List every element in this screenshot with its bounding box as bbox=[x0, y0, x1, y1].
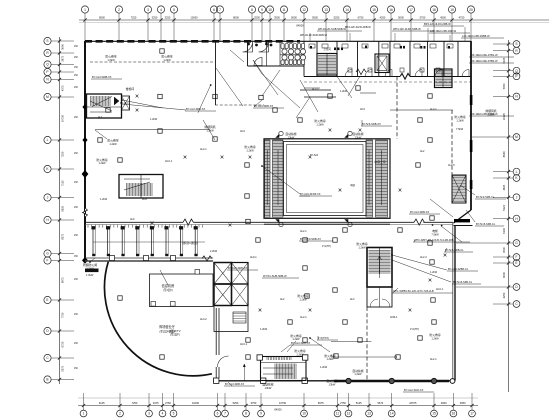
svg-text:9125: 9125 bbox=[99, 401, 105, 405]
svg-text:BY-AL3-SDB-XX: BY-AL3-SDB-XX bbox=[225, 382, 244, 386]
svg-text:15: 15 bbox=[372, 8, 376, 12]
svg-text:BY-AL3: BY-AL3 bbox=[120, 102, 129, 105]
wash basins bbox=[282, 49, 306, 60]
svg-text:防火卷帘: 防火卷帘 bbox=[297, 294, 308, 298]
svg-text:8: 8 bbox=[245, 412, 247, 416]
svg-text:防火卷帘: 防火卷帘 bbox=[314, 119, 325, 123]
svg-text:7750: 7750 bbox=[61, 312, 65, 318]
svg-text:6750: 6750 bbox=[61, 341, 65, 347]
svg-text:3750: 3750 bbox=[251, 401, 257, 405]
svg-text:BY-AL9-SDB-XX: BY-AL9-SDB-XX bbox=[228, 266, 247, 270]
leader verticals above top wall bbox=[310, 27, 465, 41]
wing corridor lower edge bbox=[304, 97, 453, 110]
elevator shaft right cell bbox=[232, 263, 249, 306]
curved curtain wall (quarter arc, SW corner) bbox=[104, 262, 211, 376]
svg-text:AL2-1: AL2-1 bbox=[300, 230, 307, 233]
long leaders from right grid bbox=[456, 137, 493, 287]
exterior wall: top (curtain wall with mullion dashes) bbox=[85, 40, 471, 42]
svg-text:BY-AL3-SDB-XX: BY-AL3-SDB-XX bbox=[186, 107, 205, 111]
elevator X lower-right cell bbox=[232, 284, 249, 306]
svg-text:14: 14 bbox=[390, 412, 394, 416]
svg-text:BY-AL3-W0B-XX: BY-AL3-W0B-XX bbox=[92, 75, 112, 79]
svg-text:L: L bbox=[516, 170, 518, 174]
svg-text:7250: 7250 bbox=[132, 401, 138, 405]
svg-text:10: 10 bbox=[302, 412, 306, 416]
svg-text:AL2-1: AL2-1 bbox=[430, 108, 437, 111]
svg-text:BY-5m6-SZB-CL: BY-5m6-SZB-CL bbox=[453, 280, 473, 284]
elevator bank (2 shafts) bbox=[214, 263, 232, 306]
svg-text:中庭上空: 中庭上空 bbox=[374, 160, 385, 164]
stairwell S1 (top-left) bbox=[87, 94, 122, 118]
svg-text:12: 12 bbox=[347, 412, 351, 416]
leader diagonals upper-middle bbox=[230, 50, 360, 118]
wing zigzag joint bbox=[356, 69, 366, 75]
E4 labels bbox=[290, 334, 363, 376]
svg-text:自动扶梯: 自动扶梯 bbox=[262, 383, 273, 387]
svg-text:7125: 7125 bbox=[61, 180, 65, 186]
svg-text:7250: 7250 bbox=[61, 151, 65, 157]
E4 corner column squares bbox=[257, 355, 308, 360]
section marker flags on atrium top bbox=[276, 131, 352, 226]
svg-text:2: 2 bbox=[119, 412, 121, 416]
svg-text:84000: 84000 bbox=[274, 408, 282, 412]
svg-text:10750: 10750 bbox=[279, 401, 287, 405]
right row-grid dimension line bbox=[508, 40, 510, 392]
svg-text:4825: 4825 bbox=[502, 184, 506, 190]
svg-text:自动扶梯: 自动扶梯 bbox=[352, 132, 363, 136]
room name texts bbox=[126, 47, 386, 334]
svg-text:10: 10 bbox=[268, 8, 272, 12]
svg-text:AL2-1: AL2-1 bbox=[300, 316, 307, 319]
svg-text:84000: 84000 bbox=[296, 24, 304, 28]
dashed smoke lines top-left bbox=[90, 62, 264, 105]
svg-text:1.2kW: 1.2kW bbox=[150, 118, 158, 121]
svg-text:5000: 5000 bbox=[291, 16, 297, 20]
svg-text:B: B bbox=[46, 378, 48, 382]
svg-text:AL2-1: AL2-1 bbox=[430, 358, 437, 361]
svg-text:1.2kW: 1.2kW bbox=[456, 118, 464, 122]
svg-text:1.2kW: 1.2kW bbox=[299, 297, 307, 301]
svg-text:12: 12 bbox=[302, 8, 306, 12]
wing room furniture bbox=[309, 44, 453, 72]
equipment room R1 bbox=[150, 274, 214, 307]
svg-text:自动扶梯: 自动扶梯 bbox=[326, 379, 337, 383]
black junction dots bbox=[89, 84, 443, 339]
svg-text:5250: 5250 bbox=[334, 16, 340, 20]
ceiling outlet squares bbox=[98, 49, 436, 359]
wing elevator shaft bbox=[375, 54, 389, 73]
svg-text:9: 9 bbox=[260, 412, 262, 416]
svg-text:7250: 7250 bbox=[131, 16, 137, 20]
svg-text:P: P bbox=[515, 75, 517, 79]
column squares on dock wall bbox=[110, 256, 176, 261]
svg-text:2750: 2750 bbox=[165, 401, 171, 405]
svg-text:6: 6 bbox=[213, 8, 215, 12]
svg-text:1.2kW: 1.2kW bbox=[430, 271, 438, 274]
svg-text:1.2kW: 1.2kW bbox=[354, 373, 362, 376]
svg-text:10750: 10750 bbox=[61, 114, 65, 122]
smoke valve label bbox=[85, 269, 99, 273]
svg-text:BY-AL9-SFD6-XX: BY-AL9-SFD6-XX bbox=[300, 192, 321, 196]
smoke vent shaft beside S1 bbox=[122, 96, 130, 110]
svg-text:4650: 4650 bbox=[460, 401, 466, 405]
svg-text:1.2kW: 1.2kW bbox=[260, 328, 268, 331]
svg-text:WP-1D-2F-SUB-SDB-W: WP-1D-2F-SUB-SDB-W bbox=[300, 34, 328, 37]
svg-text:3500: 3500 bbox=[502, 247, 506, 253]
left grid small dimension texts bbox=[74, 46, 79, 370]
dock leaf bottom caps bbox=[92, 254, 197, 256]
svg-text:3500: 3500 bbox=[274, 16, 280, 20]
svg-text:M: M bbox=[46, 95, 49, 99]
svg-text:1.2kW: 1.2kW bbox=[340, 90, 348, 93]
svg-text:WP-1D-2F-SUB-SDB-W: WP-1D-2F-SUB-SDB-W bbox=[318, 27, 347, 31]
svg-text:18: 18 bbox=[432, 8, 436, 12]
svg-text:1.2kW: 1.2kW bbox=[107, 58, 115, 62]
black lintel blocks on right wall bbox=[470, 95, 473, 189]
grid node circles on bottom wall bbox=[346, 378, 455, 383]
wall from elevator bank to bottom wall (double) bbox=[216, 308, 228, 378]
fire-compartment dashed boundary verticals bbox=[367, 77, 452, 381]
svg-text:11: 11 bbox=[336, 412, 340, 416]
svg-text:S: S bbox=[46, 39, 48, 43]
left grid bubbles and leaders bbox=[44, 37, 74, 383]
svg-text:17: 17 bbox=[409, 8, 413, 12]
svg-text:1.2kW: 1.2kW bbox=[320, 366, 328, 369]
svg-text:13: 13 bbox=[367, 412, 371, 416]
svg-text:1.2kW: 1.2kW bbox=[292, 338, 300, 341]
svg-text:电梯: 电梯 bbox=[432, 229, 438, 233]
svg-text:9875: 9875 bbox=[61, 277, 65, 283]
svg-text:AC2: AC2 bbox=[240, 130, 245, 133]
fire shutter labels bbox=[83, 55, 497, 390]
svg-text:5050: 5050 bbox=[502, 83, 506, 89]
svg-text:AL3-2: AL3-2 bbox=[200, 318, 207, 321]
corridor wall across plan y=222 with expansion joints bbox=[85, 219, 453, 225]
svg-text:5750: 5750 bbox=[420, 16, 426, 20]
svg-text:(至2层F楼面): (至2层F楼面) bbox=[159, 330, 174, 334]
svg-text:F: F bbox=[516, 255, 518, 259]
svg-text:1.2kW: 1.2kW bbox=[431, 336, 439, 340]
svg-text:1.2kW: 1.2kW bbox=[100, 198, 108, 201]
wing door swings bbox=[345, 70, 469, 77]
svg-text:AL3: AL3 bbox=[350, 298, 355, 301]
svg-text:中庭: 中庭 bbox=[350, 183, 356, 187]
svg-text:4375: 4375 bbox=[61, 85, 65, 91]
column diamond nodes on left wall bbox=[82, 137, 87, 143]
svg-text:5125: 5125 bbox=[356, 401, 362, 405]
svg-text:5000: 5000 bbox=[398, 16, 404, 20]
svg-text:M: M bbox=[515, 135, 518, 139]
svg-text:BY-5c6: BY-5c6 bbox=[310, 154, 319, 157]
svg-text:AL2-5: AL2-5 bbox=[448, 164, 455, 167]
svg-text:防烟防火阀: 防烟防火阀 bbox=[83, 263, 97, 267]
dock door leaves row bbox=[92, 227, 198, 257]
svg-text:4750: 4750 bbox=[459, 16, 465, 20]
svg-text:4500: 4500 bbox=[440, 16, 446, 20]
svg-text:6750: 6750 bbox=[358, 16, 364, 20]
svg-text:5250: 5250 bbox=[233, 401, 239, 405]
loading dock band bottom wall (gray double) bbox=[85, 258, 213, 261]
svg-text:13: 13 bbox=[324, 8, 328, 12]
wing wall segment below corridor bbox=[300, 89, 331, 91]
svg-text:1.2kW: 1.2kW bbox=[109, 142, 117, 146]
svg-text:13kW: 13kW bbox=[288, 135, 295, 139]
WC stalls top row bbox=[281, 44, 305, 49]
svg-text:10575: 10575 bbox=[409, 401, 417, 405]
escalator bank right (down) bbox=[366, 140, 388, 217]
svg-text:13kW: 13kW bbox=[355, 135, 362, 139]
svg-text:AL2-1: AL2-1 bbox=[312, 88, 319, 91]
svg-text:6000: 6000 bbox=[502, 272, 506, 278]
WC stalls bottom row bbox=[281, 60, 305, 65]
svg-text:1.2kW: 1.2kW bbox=[98, 162, 106, 165]
svg-text:WP4-12F-3LFD-SDB-W: WP4-12F-3LFD-SDB-W bbox=[393, 27, 421, 31]
escalator E4 (bottom-center) bbox=[261, 357, 307, 381]
washroom block walls bbox=[248, 42, 305, 67]
svg-text:13kW: 13kW bbox=[265, 386, 272, 390]
svg-text:楼梯间: 楼梯间 bbox=[126, 87, 135, 91]
svg-text:AL2-3: AL2-3 bbox=[420, 256, 427, 259]
top column-grid dimension line bbox=[79, 20, 549, 23]
svg-text:8375: 8375 bbox=[61, 233, 65, 239]
expansion joint on left wall bbox=[83, 208, 88, 217]
svg-text:7: 7 bbox=[224, 412, 226, 416]
svg-text:7.5kW: 7.5kW bbox=[431, 232, 439, 236]
interior wire lines bbox=[85, 88, 376, 130]
svg-text:BY-A(2)9-SDB-XX: BY-A(2)9-SDB-XX bbox=[300, 237, 321, 241]
svg-text:1.2kW: 1.2kW bbox=[246, 148, 254, 152]
svg-text:防火卷帘: 防火卷帘 bbox=[454, 115, 465, 119]
svg-text:8: 8 bbox=[251, 8, 253, 12]
svg-text:5375: 5375 bbox=[61, 365, 65, 371]
svg-text:W-5X1-SUB-SDB-W: W-5X1-SUB-SDB-W bbox=[263, 274, 287, 278]
WC room doors bbox=[243, 42, 273, 67]
svg-text:3: 3 bbox=[148, 412, 150, 416]
svg-text:5.5kW: 5.5kW bbox=[487, 112, 495, 116]
svg-text:3375: 3375 bbox=[153, 401, 159, 405]
svg-text:BP4-12F-3LFD-2DB-W: BP4-12F-3LFD-2DB-W bbox=[345, 26, 371, 29]
expansion joint on dock wall bbox=[202, 256, 212, 261]
svg-text:12F-19E3-24E-D7B0-W: 12F-19E3-24E-D7B0-W bbox=[470, 59, 498, 63]
svg-text:BY-AL9-SZB6-CL: BY-AL9-SZB6-CL bbox=[448, 267, 469, 271]
leader lines bbox=[90, 60, 475, 386]
svg-text:BY-5c6-SDB-XX: BY-5c6-SDB-XX bbox=[362, 122, 381, 126]
svg-text:WPL-WPB3-5A-12F-3c7b-7LB-2LB: WPL-WPB3-5A-12F-3c7b-7LB-2LB bbox=[393, 289, 434, 293]
escalator arrows center block bbox=[267, 150, 381, 205]
svg-text:1.2kW: 1.2kW bbox=[316, 122, 324, 126]
svg-text:3250: 3250 bbox=[152, 16, 158, 20]
svg-text:16: 16 bbox=[452, 412, 456, 416]
svg-text:16: 16 bbox=[389, 8, 393, 12]
svg-text:BY-5c6-SDB-CL: BY-5c6-SDB-CL bbox=[445, 248, 464, 252]
svg-text:防火卷帘: 防火卷帘 bbox=[107, 139, 118, 143]
svg-text:4250: 4250 bbox=[380, 16, 386, 20]
svg-text:防火卷帘: 防火卷帘 bbox=[356, 242, 367, 246]
svg-text:5500: 5500 bbox=[312, 16, 318, 20]
svg-text:1*A(TP): 1*A(TP) bbox=[410, 328, 419, 331]
cable tag labels bbox=[91, 22, 514, 392]
svg-text:1.2kW: 1.2kW bbox=[163, 58, 171, 62]
svg-text:2750: 2750 bbox=[340, 401, 346, 405]
escalator E3 (right side) bbox=[452, 175, 466, 203]
svg-text:BP4-12F-3LFD-2DB-W: BP4-12F-3LFD-2DB-W bbox=[424, 22, 451, 26]
svg-text:L2F-19E3-24B-D2B8-W: L2F-19E3-24B-D2B8-W bbox=[462, 34, 490, 38]
svg-text:5625: 5625 bbox=[61, 205, 65, 211]
exterior wall: bottom bbox=[213, 380, 453, 382]
svg-text:E: E bbox=[46, 298, 48, 302]
exterior wall: right lower (double gray) bbox=[453, 223, 455, 381]
svg-text:8500: 8500 bbox=[99, 16, 105, 20]
svg-text:3250: 3250 bbox=[165, 16, 171, 20]
svg-text:10000: 10000 bbox=[190, 16, 198, 20]
svg-text:5: 5 bbox=[173, 8, 175, 12]
atrium opening boundary (center) bbox=[264, 139, 390, 224]
svg-text:AL9: AL9 bbox=[130, 218, 135, 221]
right grid bubbles and leaders bbox=[493, 41, 520, 308]
svg-text:1: 1 bbox=[84, 8, 86, 12]
svg-text:6100: 6100 bbox=[502, 227, 506, 233]
svg-text:防火卷帘: 防火卷帘 bbox=[294, 349, 305, 353]
stairwell S3 (top-middle) bbox=[317, 54, 337, 76]
wing black furniture marks bbox=[310, 46, 450, 51]
bottom column-grid dimension line bbox=[78, 398, 478, 406]
top grid bubbles and leaders bbox=[81, 6, 474, 41]
bottom grid bubbles and leaders bbox=[80, 393, 475, 417]
svg-text:AL2: AL2 bbox=[420, 150, 425, 153]
small x marks bbox=[136, 95, 447, 312]
svg-text:商场营业厅: 商场营业厅 bbox=[159, 324, 176, 329]
svg-text:P: P bbox=[46, 70, 48, 74]
svg-text:5324: 5324 bbox=[502, 205, 506, 211]
svg-text:2875: 2875 bbox=[61, 55, 65, 61]
svg-text:L: L bbox=[47, 138, 49, 142]
svg-text:8000: 8000 bbox=[233, 16, 239, 20]
svg-text:15: 15 bbox=[432, 412, 436, 416]
svg-text:AC2-1: AC2-1 bbox=[436, 288, 444, 291]
svg-text:排烟风机: 排烟风机 bbox=[485, 109, 496, 113]
column squares on bottom wall bbox=[214, 378, 308, 383]
fire shutter label mid-left bbox=[96, 158, 107, 165]
svg-text:8649: 8649 bbox=[502, 151, 506, 157]
svg-text:20: 20 bbox=[469, 8, 473, 12]
svg-text:BY-5m5-SZB-CL: BY-5m5-SZB-CL bbox=[476, 222, 496, 226]
svg-text:1.2kW: 1.2kW bbox=[326, 358, 334, 361]
wing room band: bottom wall y=76 bbox=[304, 74, 471, 80]
stairwell S2 (mid-left) bbox=[119, 175, 163, 199]
svg-text:1*A(TPX): 1*A(TPX) bbox=[318, 336, 329, 340]
svg-text:BY-AL2-SUD-XX: BY-AL2-SUD-XX bbox=[404, 388, 424, 392]
svg-text:BY-AL3-SDB-XX: BY-AL3-SDB-XX bbox=[291, 341, 310, 345]
svg-text:3000: 3000 bbox=[61, 44, 65, 50]
svg-text:1.0kW: 1.0kW bbox=[86, 273, 94, 277]
svg-text:AC2: AC2 bbox=[360, 108, 365, 111]
svg-text:AC2-1: AC2-1 bbox=[165, 160, 173, 163]
svg-text:AL2-1: AL2-1 bbox=[200, 148, 207, 151]
svg-text:1*A(TP): 1*A(TP) bbox=[322, 245, 331, 248]
svg-text:10125: 10125 bbox=[502, 113, 506, 121]
svg-text:卫生间: 卫生间 bbox=[323, 47, 331, 51]
svg-text:AL9-1: AL9-1 bbox=[250, 256, 257, 259]
svg-text:5025: 5025 bbox=[502, 57, 506, 63]
exterior wall: left bbox=[84, 41, 86, 261]
svg-text:S: S bbox=[515, 42, 517, 46]
svg-text:11: 11 bbox=[282, 8, 286, 12]
svg-text:6: 6 bbox=[217, 412, 219, 416]
svg-text:防火卷帘: 防火卷帘 bbox=[429, 333, 440, 337]
svg-text:4: 4 bbox=[160, 8, 162, 12]
svg-text:5: 5 bbox=[173, 412, 175, 416]
svg-text:2: 2 bbox=[118, 8, 120, 12]
svg-text:4: 4 bbox=[162, 412, 164, 416]
wing corridor dashed centerline bbox=[304, 81, 471, 83]
svg-text:12F-19E3-24E-D7B1-W: 12F-19E3-24E-D7B1-W bbox=[470, 53, 498, 57]
svg-text:(至2层F): (至2层F) bbox=[163, 288, 173, 292]
machine room below S5 bbox=[367, 287, 392, 307]
comb ticks on E4 top bbox=[267, 357, 291, 360]
svg-text:4250: 4250 bbox=[502, 292, 506, 298]
svg-text:防火卷帘: 防火卷帘 bbox=[244, 145, 255, 149]
svg-text:1.2kW: 1.2kW bbox=[358, 245, 366, 249]
extra top tag row texts bbox=[300, 26, 371, 37]
svg-text:8375: 8375 bbox=[318, 401, 324, 405]
svg-text:14: 14 bbox=[345, 8, 349, 12]
svg-text:(卸货1通道): (卸货1通道) bbox=[182, 240, 198, 245]
svg-text:3: 3 bbox=[147, 8, 149, 12]
svg-text:AC8: AC8 bbox=[142, 198, 147, 201]
svg-text:自动扶梯: 自动扶梯 bbox=[285, 132, 296, 136]
svg-text:7: 7 bbox=[219, 8, 221, 12]
svg-text:防火卷帘: 防火卷帘 bbox=[161, 55, 172, 59]
stairwell S5 (bottom-right) bbox=[367, 248, 392, 288]
exterior wall: right upper bbox=[454, 41, 472, 223]
dock hanger ticks bbox=[88, 225, 205, 242]
svg-text:防火卷帘: 防火卷帘 bbox=[105, 55, 116, 59]
svg-text:17: 17 bbox=[470, 412, 474, 416]
svg-text:1: 1 bbox=[83, 412, 85, 416]
svg-text:19: 19 bbox=[450, 8, 454, 12]
svg-text:AL2: AL2 bbox=[280, 298, 285, 301]
svg-text:AL1: AL1 bbox=[98, 116, 103, 119]
svg-text:13kW: 13kW bbox=[329, 382, 336, 386]
stairwell S4 (top-right) bbox=[435, 69, 453, 88]
escalator bank left (up) bbox=[265, 140, 284, 217]
svg-text:2.2kW: 2.2kW bbox=[210, 250, 218, 253]
svg-text:BY-AL3-SDB-XX: BY-AL3-SDB-XX bbox=[410, 210, 429, 214]
right wall top step bbox=[454, 225, 473, 227]
AHU room below elevators bbox=[214, 306, 248, 332]
svg-text:ACB-1: ACB-1 bbox=[390, 316, 398, 319]
svg-text:4849: 4849 bbox=[441, 401, 447, 405]
misc tiny annotation texts bbox=[98, 88, 464, 369]
svg-text:信息机房: 信息机房 bbox=[162, 283, 175, 288]
E4 leader lines bbox=[243, 341, 397, 381]
svg-text:F: F bbox=[47, 259, 49, 263]
svg-text:BY-5c3-SZB-CL: BY-5c3-SZB-CL bbox=[476, 195, 495, 199]
wing partitions bbox=[216, 42, 459, 106]
svg-text:AC2-1: AC2-1 bbox=[240, 343, 248, 346]
svg-text:9: 9 bbox=[261, 8, 263, 12]
left row-grid dimension line bbox=[59, 37, 61, 384]
svg-text:L2F-19E3-24B-D2B-W: L2F-19E3-24B-D2B-W bbox=[430, 29, 457, 33]
svg-text:E: E bbox=[515, 261, 517, 265]
svg-text:11000: 11000 bbox=[192, 401, 200, 405]
svg-text:WPC-WRT-AB-12F-B-7c4-2B-30B: WPC-WRT-AB-12F-B-7c4-2B-30B bbox=[414, 238, 454, 242]
svg-text:2500: 2500 bbox=[254, 16, 260, 20]
svg-text:5674: 5674 bbox=[377, 401, 383, 405]
svg-text:7.5kW: 7.5kW bbox=[456, 128, 464, 131]
